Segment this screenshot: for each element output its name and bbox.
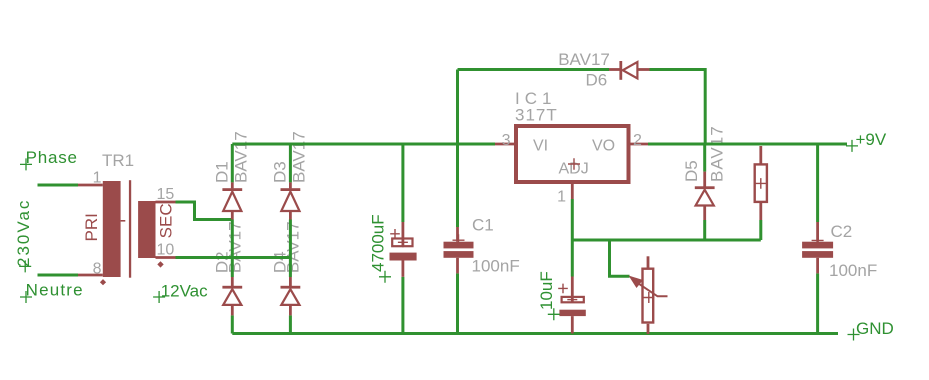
origin cross C2 xyxy=(812,234,824,246)
diode D3 xyxy=(281,182,301,219)
wire C1 column upper xyxy=(456,144,459,227)
wire C1 column lower xyxy=(456,273,459,333)
IC body xyxy=(516,126,629,182)
svg-text:4700uF: 4700uF xyxy=(369,214,388,272)
wire R1 column lower xyxy=(759,220,762,240)
wire bridge column 1 middle xyxy=(231,220,234,278)
svg-text:+9V: +9V xyxy=(856,130,887,149)
wire bridge column 2 lower xyxy=(289,315,292,333)
origin cross +9V xyxy=(846,140,858,152)
wire D5 column upper xyxy=(703,144,706,172)
wire ADJ vertical to 10uF xyxy=(571,199,574,277)
svg-text:GND: GND xyxy=(856,319,894,338)
svg-text:8: 8 xyxy=(93,261,102,278)
polarity + (4700uF) xyxy=(390,229,400,239)
svg-text:Neutre: Neutre xyxy=(26,281,84,300)
wire Phase to TR1 pin 1 xyxy=(38,184,79,187)
body xyxy=(643,269,654,323)
resistor R1 xyxy=(755,146,767,220)
capacitor C1 xyxy=(444,227,474,273)
svg-text:C1: C1 xyxy=(472,216,494,235)
svg-text:D6: D6 xyxy=(586,71,608,90)
svg-text:12Vac: 12Vac xyxy=(161,282,208,301)
svg-text:317T: 317T xyxy=(515,106,558,125)
diode D4 xyxy=(281,277,301,315)
pin stub TR1-10 xyxy=(156,256,176,259)
svg-text:VO: VO xyxy=(592,137,615,154)
svg-text:BAV17: BAV17 xyxy=(707,125,726,182)
svg-text:D3: D3 xyxy=(270,161,289,183)
svg-text:TR1: TR1 xyxy=(102,151,134,170)
origin cross 12Vac xyxy=(153,291,165,303)
potentiometer R2 xyxy=(629,256,668,334)
pin stub ADJ (1) xyxy=(571,184,574,199)
origin cross R2 xyxy=(643,292,654,303)
wire D6 top right segment xyxy=(650,70,706,145)
wire D5 column lower xyxy=(703,220,706,240)
wire 4700uF column lower xyxy=(401,277,404,334)
svg-text:PRI: PRI xyxy=(82,213,101,241)
wire C2 column upper xyxy=(816,144,819,222)
diode D2 xyxy=(222,277,242,315)
capacitor 4700uF xyxy=(390,222,417,277)
pin stub TR1-15 xyxy=(156,201,176,204)
svg-text:100nF: 100nF xyxy=(829,261,877,280)
svg-text:C2: C2 xyxy=(831,222,853,241)
diode D6 xyxy=(609,61,650,80)
wire bridge column 2 middle xyxy=(289,220,292,278)
origin cross C1 xyxy=(453,234,465,246)
wire GND bottom rail xyxy=(232,332,838,335)
wire 4700uF column upper xyxy=(401,144,404,222)
origin cross 4700uF xyxy=(379,271,391,283)
pin stub TR1-1 xyxy=(78,184,103,187)
wire TR1 pin 15 to bridge column 1 midpoint xyxy=(176,202,233,220)
bottom stub xyxy=(647,324,650,334)
transformer TR1 xyxy=(78,170,176,286)
wire TR1 pin 10 to bridge column 2 midpoint xyxy=(176,256,291,259)
origin cross 230Vac xyxy=(19,260,31,272)
wire bridge column 1 lower xyxy=(231,315,234,333)
wire Neutre to TR1 pin 8 xyxy=(38,274,79,277)
svg-text:1: 1 xyxy=(557,189,566,206)
svg-text:BAV17: BAV17 xyxy=(231,131,250,183)
svg-text:2: 2 xyxy=(633,132,642,149)
secondary winding SEC xyxy=(138,201,155,258)
wire bridge column 2 upper xyxy=(289,144,292,182)
origin mark PRI xyxy=(100,279,106,285)
svg-text:230Vac: 230Vac xyxy=(14,199,33,267)
origin cross GND xyxy=(848,329,860,341)
wire D6 top left segment xyxy=(458,68,610,71)
svg-text:100nF: 100nF xyxy=(472,257,520,276)
wire C2 column lower xyxy=(816,273,819,333)
pin stub TR1-8 xyxy=(78,274,103,277)
wire D6 loop left vertical xyxy=(456,70,459,145)
pin stub VI (3) xyxy=(495,143,516,146)
origin cross Phase xyxy=(20,158,32,170)
svg-text:1: 1 xyxy=(93,170,102,187)
origin mark TR1 xyxy=(157,261,163,267)
wire ADJ horizontal xyxy=(572,239,761,242)
capacitor C2 xyxy=(802,222,833,273)
origin cross IC1 xyxy=(568,158,580,169)
svg-text:15: 15 xyxy=(157,186,175,203)
origin cross Neutre xyxy=(20,291,32,303)
top stub xyxy=(647,256,650,268)
origin cross 10uF xyxy=(548,308,560,320)
wiper arrow xyxy=(629,276,644,289)
svg-text:Phase: Phase xyxy=(26,148,78,167)
capacitor 10uF xyxy=(558,277,586,334)
primary winding PRI xyxy=(103,181,121,277)
diode D1 xyxy=(222,182,242,219)
primary tick xyxy=(121,220,126,222)
svg-text:BAV17: BAV17 xyxy=(289,131,308,183)
svg-text:3: 3 xyxy=(502,132,511,149)
svg-text:VI: VI xyxy=(533,137,548,154)
svg-text:D5: D5 xyxy=(682,160,701,182)
pin stub VO (2) xyxy=(629,143,648,146)
svg-text:D1: D1 xyxy=(212,161,231,183)
svg-text:BAV17: BAV17 xyxy=(558,50,610,69)
svg-text:BAV17: BAV17 xyxy=(283,221,302,273)
wire pot wiper branch xyxy=(610,240,630,276)
IC1 317T regulator xyxy=(495,126,648,206)
svg-text:BAV17: BAV17 xyxy=(225,221,244,273)
svg-text:10: 10 xyxy=(157,242,175,259)
polarity + (10uF) xyxy=(558,284,568,294)
diode D5 xyxy=(695,172,715,220)
wire rectified + rail (top rail to IC VI) xyxy=(232,143,495,146)
wire +9V output rail xyxy=(648,143,847,146)
svg-text:10uF: 10uF xyxy=(537,271,556,310)
svg-text:SEC: SEC xyxy=(157,203,176,238)
core line xyxy=(129,180,131,278)
wire bridge column 1 upper xyxy=(231,144,234,182)
